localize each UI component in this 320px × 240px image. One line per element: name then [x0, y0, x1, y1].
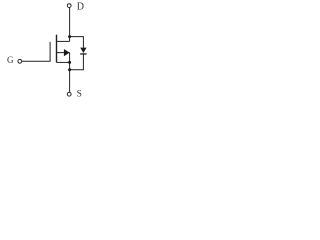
junction dot source-channel: [68, 61, 71, 64]
wire diode bottom branch: [70, 54, 84, 69]
terminal S circle: [67, 92, 71, 96]
junction dot drain-diode: [68, 35, 71, 38]
wire G to gate bar: [22, 42, 50, 61]
diode D1 cathode bar: [80, 53, 86, 54]
svg-text:S: S: [77, 90, 82, 100]
wire body stub: [57, 52, 70, 54]
wire source vertical: [69, 53, 71, 92]
junction dot source-diode: [68, 68, 71, 71]
wire drain stub: [57, 40, 70, 42]
wire drain vertical: [69, 8, 71, 42]
svg-text:D: D: [77, 2, 84, 13]
terminal G circle: [18, 59, 22, 63]
wire source stub: [57, 61, 70, 63]
gate channel bar: [56, 35, 58, 63]
diode D1 triangle: [80, 48, 86, 53]
terminal D circle: [67, 4, 71, 8]
svg-text:G: G: [7, 55, 14, 65]
wire diode top branch: [70, 37, 84, 48]
body arrow of MOSFET: [64, 49, 70, 56]
